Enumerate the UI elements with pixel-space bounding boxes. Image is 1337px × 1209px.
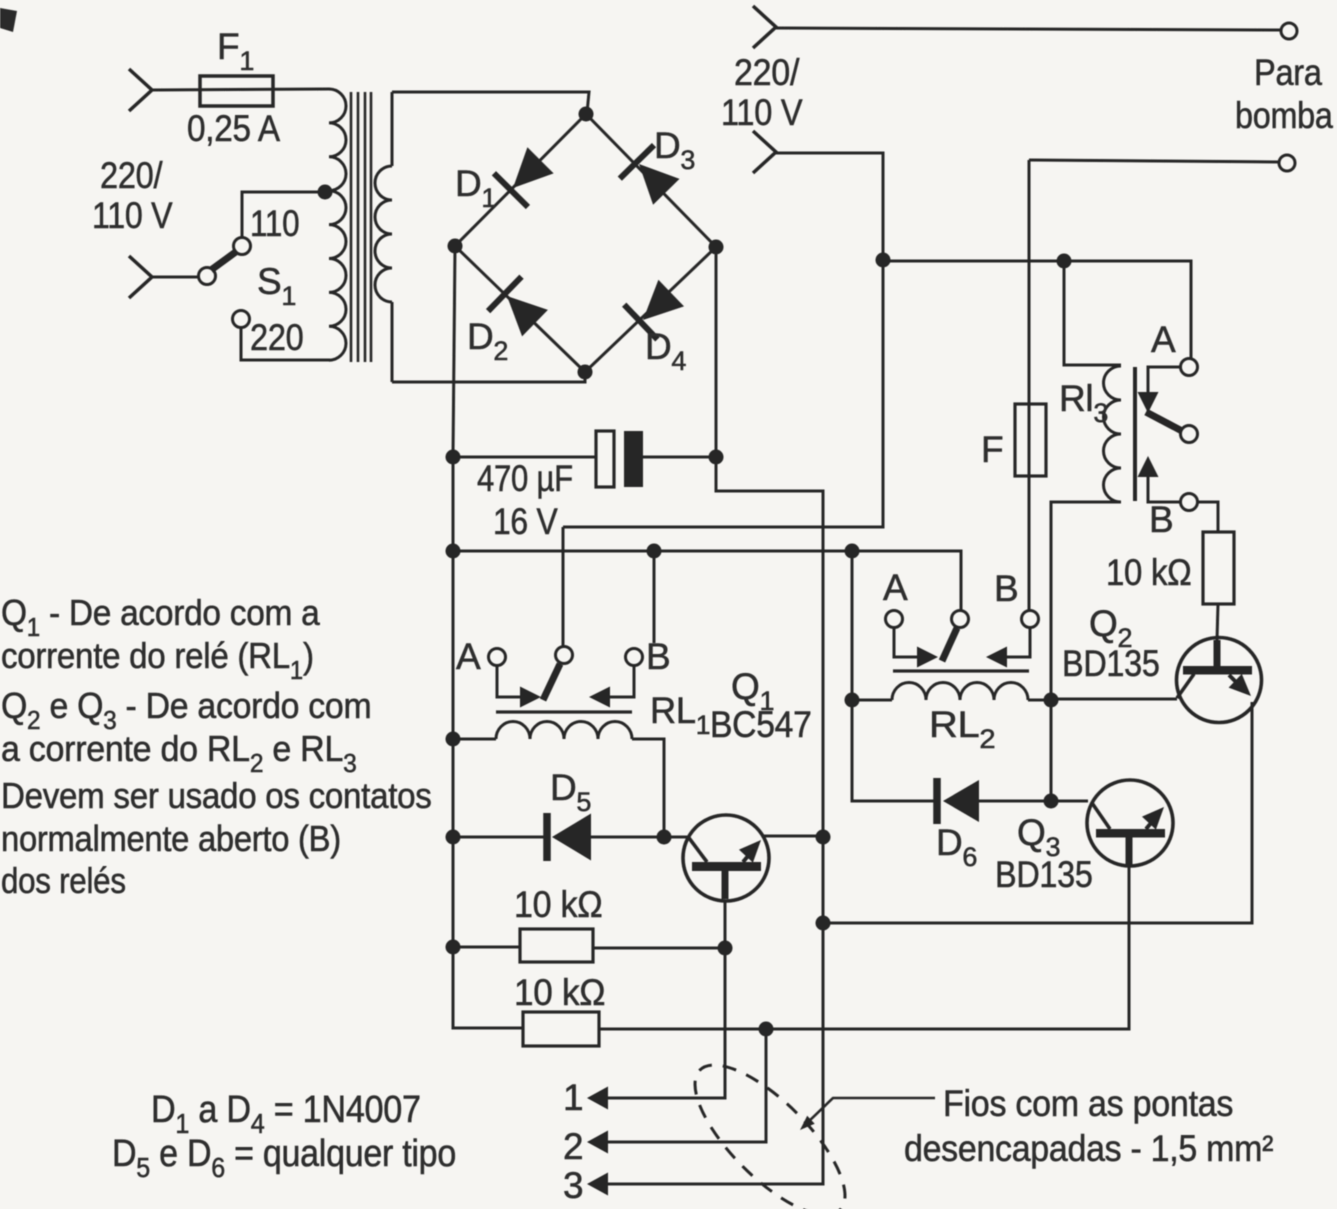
node Q3 base junction (1044, 794, 1059, 809)
label D5 (550, 767, 591, 817)
note line4 (1, 729, 356, 778)
wire secondary top to bridge (392, 92, 589, 113)
wire fuse line (152, 89, 330, 90)
svg-text:Para: Para (1254, 52, 1323, 93)
label Q3 (1017, 812, 1060, 862)
switch S1 common contact (199, 268, 216, 285)
label 10 kOhm no1 (514, 884, 602, 926)
wire RL2 coil left lead (852, 699, 892, 702)
svg-text:B: B (646, 636, 670, 677)
label Q1 (731, 666, 774, 716)
svg-text:10 kΩ: 10 kΩ (514, 884, 602, 926)
wire pump relay contact A feed (883, 261, 1191, 358)
transistor Q1 base bar (692, 862, 761, 871)
svg-text:470 µF: 470 µF (477, 459, 573, 500)
node bridge bottom (578, 365, 593, 380)
terminal para bomba 2 (1279, 155, 1295, 171)
note line3 (1, 686, 371, 735)
label 220/110 V pump (734, 52, 800, 94)
wire R1 right (593, 947, 725, 950)
wire pump line 1 (776, 28, 1281, 30)
node RL2 coil right (1044, 693, 1059, 708)
note diodes line1 (151, 1087, 421, 1139)
node Q1 base junction (657, 830, 672, 845)
transformer T1 primary winding (329, 89, 346, 360)
wire R1 left (453, 946, 520, 949)
wire RL2 left riser (852, 551, 938, 801)
node RL1 coil left (446, 732, 461, 747)
wire Q1 emitter right (763, 835, 823, 838)
label 470 uF (477, 459, 573, 500)
label terminal 1 (563, 1077, 583, 1118)
label 16 V (493, 502, 558, 543)
node pump2/16V junction (876, 253, 891, 268)
wire left rail (453, 246, 523, 1028)
contact RL1 common (556, 647, 573, 664)
diode D3 (639, 164, 680, 205)
wire 16V to RL1 common (562, 527, 565, 646)
transistor Q1 collector stub (722, 870, 729, 899)
svg-text:B: B (1149, 499, 1173, 540)
svg-text:BC547: BC547 (710, 705, 812, 746)
svg-text:Devem ser usado os contatos: Devem ser usado os contatos (1, 777, 432, 817)
svg-text:BD135: BD135 (1062, 644, 1160, 684)
wire capacitor left (453, 456, 596, 459)
label 110 (250, 204, 299, 245)
transistor Q3 emitter (1146, 817, 1156, 829)
wire rail to RL2 common (453, 551, 961, 610)
input terminal pump line 1 (753, 6, 776, 48)
transistor Q2 emitter (1229, 675, 1243, 689)
label Rl3 (1059, 378, 1108, 428)
terminal para bomba 1 (1281, 23, 1297, 39)
arrow Rl3 A (1138, 392, 1159, 413)
contact RL1 A (489, 649, 506, 666)
label 10 kOhm no2 (514, 971, 605, 1013)
label RL1 A (456, 636, 481, 677)
contact RL1 B (626, 649, 643, 666)
diode D4 (643, 280, 684, 320)
label D4 (645, 326, 686, 376)
value 0,25 A (187, 108, 281, 149)
relay RL1 armature arm (543, 664, 560, 700)
note fios line1 (943, 1083, 1233, 1125)
svg-text:0,25 A: 0,25 A (187, 108, 281, 149)
node bridge top (579, 107, 594, 122)
note line5 (1, 777, 432, 817)
wire fuse F line (1028, 160, 1031, 610)
resistor 10k no1 (520, 929, 593, 962)
node bridge right (709, 240, 724, 255)
label terminal 3 (563, 1165, 583, 1206)
contact RL2 B (1022, 611, 1039, 628)
wire bridge edges (455, 114, 716, 372)
svg-text:B: B (994, 568, 1018, 609)
wire 220 to primary bottom (241, 327, 330, 360)
arrow RL2 B (986, 647, 1007, 668)
transistor Q3 base bar (1096, 829, 1165, 838)
node D5 left rail (446, 830, 461, 845)
svg-text:10 kΩ: 10 kΩ (514, 971, 605, 1013)
note line7 (1, 861, 126, 902)
transistor Q2 base bar (1183, 666, 1252, 675)
scan corner mark (0, 8, 17, 32)
contact Rl3 B (1181, 494, 1198, 511)
label Rl3 B (1149, 499, 1173, 540)
label terminal 2 (563, 1126, 583, 1167)
arrow RL1 B (589, 687, 610, 708)
wire Rl3 coil top lead (1064, 261, 1121, 365)
wire RL2 coil right lead (1028, 699, 1051, 702)
diode D5 (543, 813, 551, 861)
note fios line2 (904, 1128, 1274, 1170)
label RL2 (929, 704, 995, 753)
svg-text:normalmente aberto (B): normalmente aberto (B) (1, 820, 341, 860)
transistor Q2 base diagonal (1177, 674, 1194, 698)
label Rl3 A (1151, 319, 1176, 360)
svg-text:220/: 220/ (734, 52, 800, 94)
wire D6 to Q3 base (979, 800, 1088, 803)
svg-text:10 kΩ: 10 kΩ (1106, 552, 1192, 593)
capacitor 470uF plate- (624, 431, 643, 487)
wire terminal 2 riser (607, 1029, 766, 1142)
arrow terminal 3 (587, 1173, 608, 1196)
wire Rl3 A lead (1148, 367, 1180, 392)
contact Rl3 common (1181, 426, 1198, 443)
svg-text:2: 2 (563, 1126, 583, 1167)
arrow terminal 2 (587, 1131, 608, 1154)
svg-text:1: 1 (563, 1077, 583, 1118)
label RL1 (650, 690, 710, 740)
svg-text:desencapadas - 1,5 mm²: desencapadas - 1,5 mm² (904, 1128, 1274, 1170)
input terminal AC line 1 (129, 69, 152, 111)
relay RL2 armature line (893, 669, 1029, 672)
fuse F1 (200, 76, 273, 106)
node RL2 coil left (845, 693, 860, 708)
wire Rl3 coil bottom lead (1051, 502, 1121, 801)
transistor Q3 collector stub (1126, 837, 1133, 865)
diode D1 (513, 147, 554, 188)
node tap junction (318, 185, 333, 200)
svg-text:3: 3 (563, 1165, 583, 1206)
note Q1 line1 (1, 594, 320, 642)
capacitor 470uF plate+ (596, 431, 614, 487)
node Q1 emitter junction (816, 830, 831, 845)
transistor Q3 body (1087, 780, 1173, 866)
svg-text:110 V: 110 V (721, 92, 803, 133)
wire capacitor right (643, 456, 716, 459)
wire resistor to Q2 collector (1217, 604, 1218, 640)
wire Q3 collector down (599, 866, 1129, 1029)
resistor 10k no2 (523, 1012, 599, 1046)
wire riser to B label (653, 551, 656, 643)
label Para bomba (1254, 52, 1323, 93)
switch S1 contact 220 (233, 311, 250, 328)
contact RL2 common (952, 611, 969, 628)
note diodes line2 (112, 1131, 456, 1183)
label Q2 BD135 (1062, 644, 1160, 684)
wire RL1 A lead (497, 666, 521, 697)
wire Rl3 B lead (1148, 476, 1180, 502)
transistor Q3 base diagonal (1092, 803, 1110, 829)
transformer core (350, 92, 353, 362)
node bridge left (448, 239, 463, 254)
node R1 collector junction (718, 941, 733, 956)
wire D5 left (453, 836, 545, 839)
node R1 left rail (446, 940, 461, 955)
svg-text:BD135: BD135 (995, 855, 1093, 895)
label Q2 (1089, 603, 1132, 653)
transistor Q2 body (1177, 638, 1262, 723)
transistor Q1 base diagonal (689, 838, 707, 862)
label D1 (455, 163, 496, 213)
pointer to wire ends (806, 1098, 935, 1124)
label D6 (936, 822, 977, 872)
note line2 (1, 637, 314, 685)
relay RL2 armature arm (942, 628, 957, 661)
note line6 (1, 820, 341, 860)
label S1 (257, 261, 296, 311)
transistor Q1 emitter (743, 850, 753, 862)
transistor Q1 body (683, 815, 769, 901)
label 10 kOhm right (1106, 552, 1192, 593)
label F1 (217, 26, 254, 76)
wire Q2 base (1051, 698, 1177, 701)
relay Rl3 coil (1104, 366, 1122, 502)
svg-text:16 V: 16 V (493, 502, 558, 543)
svg-text:F: F (981, 429, 1003, 470)
arrow Rl3 B (1138, 456, 1159, 477)
svg-text:Fios com as pontas: Fios com as pontas (943, 1083, 1233, 1125)
label RL2 B (994, 568, 1018, 609)
node capacitor left rail (446, 450, 461, 465)
wire Rl3 B to resistor (1198, 502, 1218, 532)
node Rl3 coil feed junction (1057, 254, 1072, 269)
wire 110 tap (242, 192, 325, 238)
node Q2 emitter return junction (816, 916, 831, 931)
svg-text:A: A (456, 636, 481, 677)
input terminal pump line 2 (753, 131, 776, 173)
svg-text:220/: 220/ (100, 155, 163, 196)
wire RL1 B lead (609, 666, 634, 697)
wire switch common (152, 276, 199, 279)
relay Rl3 core (1133, 367, 1137, 501)
label RL1 B (646, 636, 670, 677)
arrow terminal 1 (587, 1087, 608, 1110)
wire RL1 coil right lead (632, 739, 664, 837)
relay RL2 coil (892, 683, 1028, 701)
relay Rl3 armature (1146, 412, 1182, 431)
node rail-left (446, 544, 461, 559)
wire secondary bottom to bridge (392, 372, 585, 382)
node rail-RL2riser (845, 544, 860, 559)
wire RL2 A lead (894, 628, 918, 657)
svg-text:110 V: 110 V (92, 196, 173, 237)
label Q1 BC547 (710, 705, 812, 746)
wire RL1 coil left lead (453, 738, 496, 741)
wire Q2 emitter return (823, 702, 1252, 923)
wire Q1 collector down (607, 901, 725, 1098)
node terminal2 junction (759, 1022, 774, 1037)
contact Rl3 A (1181, 359, 1198, 376)
resistor 10k right (1203, 532, 1234, 604)
svg-text:110: 110 (250, 204, 299, 245)
label D2 (467, 316, 508, 366)
node capacitor plus (709, 450, 724, 465)
label D3 (654, 125, 695, 175)
label RL2 A (883, 567, 908, 608)
diode D2 (507, 296, 548, 336)
label 220 (250, 317, 304, 358)
input terminal AC line 2 (129, 256, 152, 298)
svg-text:A: A (883, 567, 908, 608)
diode D6 (933, 778, 941, 824)
svg-text:220: 220 (250, 317, 304, 358)
transistor Q2 collector stub (1214, 640, 1221, 667)
wire ends ellipse (673, 1043, 867, 1209)
fuse F (1015, 404, 1046, 476)
svg-text:dos relés: dos relés (1, 861, 126, 902)
wire pump line 2 to terminal (1029, 160, 1279, 162)
svg-text:A: A (1151, 319, 1176, 360)
relay RL1 armature line (496, 710, 632, 713)
svg-text:bomba: bomba (1235, 96, 1334, 136)
contact RL2 A (886, 611, 903, 628)
wire D5 to Q1 base (591, 836, 688, 839)
label 220/110 V input left (100, 155, 163, 196)
node rail-RL1riser (647, 544, 662, 559)
transformer T1 secondary winding (391, 92, 394, 166)
relay RL1 coil (496, 722, 632, 740)
wire pump line 2 to node (563, 153, 883, 527)
wire bridge plus down (607, 251, 823, 1184)
arrow RL1 A (520, 687, 541, 708)
label Q3 BD135 (995, 855, 1093, 895)
switch S1 arm (211, 251, 237, 270)
wire RL2 B lead (1006, 628, 1030, 657)
arrow RL2 A (917, 647, 938, 668)
switch S1 contact 110 (234, 238, 251, 255)
label F (981, 429, 1003, 470)
